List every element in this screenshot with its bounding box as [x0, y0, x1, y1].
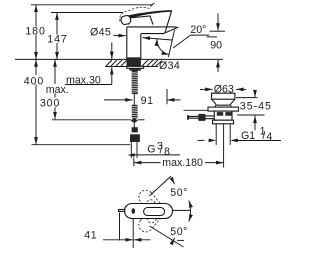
svg-text:/: / — [262, 130, 265, 142]
svg-text:20°: 20° — [190, 24, 206, 36]
svg-text:G: G — [147, 144, 155, 156]
svg-text:147: 147 — [47, 33, 67, 45]
svg-text:300: 300 — [40, 98, 60, 110]
svg-text:max.180: max.180 — [162, 157, 203, 169]
svg-text:90: 90 — [210, 39, 222, 51]
svg-text:8: 8 — [164, 146, 170, 158]
svg-text:G1: G1 — [241, 130, 255, 142]
svg-text:180: 180 — [25, 25, 45, 37]
svg-text:35-45: 35-45 — [240, 101, 272, 113]
svg-text:Ø45: Ø45 — [90, 26, 111, 38]
svg-text:91: 91 — [141, 95, 154, 107]
svg-text:50°: 50° — [170, 187, 188, 199]
svg-text:4: 4 — [266, 131, 272, 143]
svg-text:41: 41 — [84, 230, 97, 242]
svg-text:Ø34: Ø34 — [159, 60, 180, 72]
svg-text:/: / — [160, 144, 163, 156]
svg-text:400: 400 — [24, 76, 44, 88]
svg-text:50°: 50° — [170, 226, 188, 238]
